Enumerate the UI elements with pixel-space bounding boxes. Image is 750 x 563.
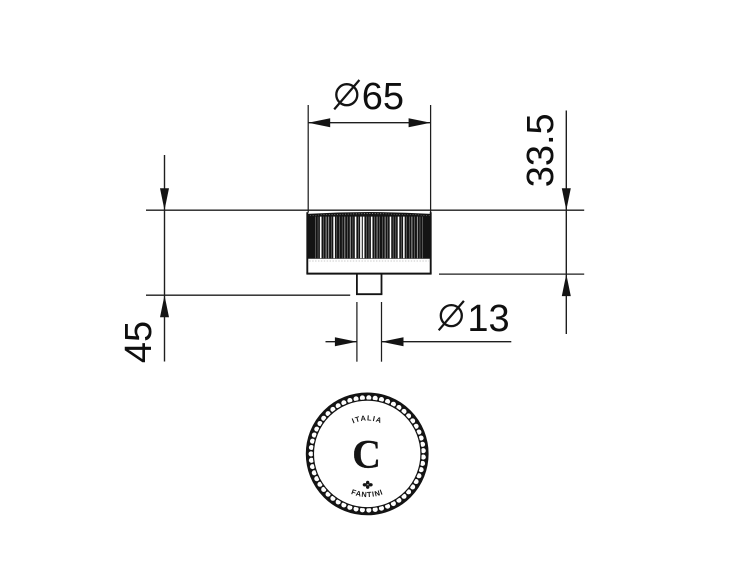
svg-text:45: 45 (118, 321, 160, 363)
svg-text:ITALIA: ITALIA (350, 413, 383, 425)
svg-text:33.5: 33.5 (520, 113, 562, 187)
svg-text:FANTINI: FANTINI (350, 487, 384, 499)
svg-text:C: C (352, 431, 381, 476)
svg-text:13: 13 (467, 298, 509, 340)
svg-text:65: 65 (362, 76, 404, 118)
